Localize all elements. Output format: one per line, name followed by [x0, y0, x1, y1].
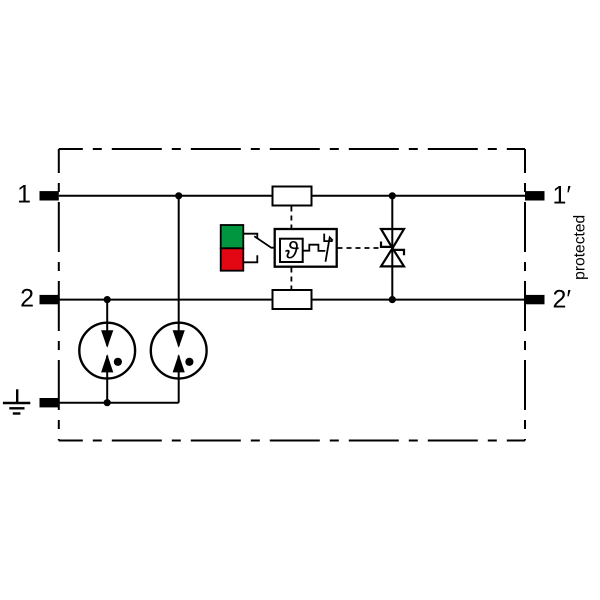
label theta (temperature symbol) [285, 238, 299, 265]
terminal 2' (right, black clamp) [525, 295, 545, 304]
label 1' [553, 182, 572, 210]
terminal 1 (left, black clamp) [40, 191, 59, 200]
wire line 2 (terminal 2 to terminal 2') [59, 299, 525, 301]
label 2' [553, 285, 572, 313]
changeover contact of status indicator [243, 234, 274, 263]
svg-text:ϑ: ϑ [285, 238, 299, 265]
junction dot line2/F1 [104, 296, 111, 303]
junction dot line2/V1 [389, 296, 396, 303]
gas discharge tube F2 (line 1 to ground) [151, 323, 207, 379]
label 2 [20, 284, 34, 312]
svg-text:2′: 2′ [553, 285, 572, 313]
ground symbol [3, 389, 30, 413]
wire ground line [59, 402, 179, 404]
step signal link inside monitor [303, 245, 326, 251]
svg-text:2: 2 [20, 284, 34, 312]
thermal sensor inner box [280, 239, 303, 262]
resistor R2 (decoupling impedance in line 2) [273, 290, 312, 309]
disconnect switch inside monitor [324, 234, 333, 262]
wire line 1 (terminal 1 to terminal 1') [59, 195, 525, 197]
status indicator red field [221, 248, 244, 270]
svg-text:1′: 1′ [553, 182, 572, 210]
suppressor diode V1 (bidirectional, line1-line2) [381, 229, 404, 266]
label protected (rotated) [572, 215, 589, 280]
dashed link thermal monitor to suppressor diode V1 [338, 247, 381, 249]
svg-text:protected: protected [572, 215, 589, 280]
junction dot line1/F2 [175, 192, 182, 199]
ground terminal (left, black clamp) [40, 398, 59, 407]
junction dot ground/F1 [104, 399, 111, 406]
thermal disconnect monitor U1 outer box [275, 229, 337, 267]
label 1 [17, 181, 31, 209]
terminal 2 (left, black clamp) [40, 295, 59, 304]
gas discharge tube F1 (line 2 to ground) [79, 323, 135, 379]
wire vertical drop of gas discharge tube F1 (line 2 to ground) [106, 300, 108, 403]
dashed link thermal monitor to resistor R2 [290, 268, 292, 291]
wire vertical drop of gas discharge tube F2 (line 1 to ground) [178, 196, 180, 403]
svg-text:1: 1 [17, 181, 31, 209]
dashed link resistor R1 to thermal monitor [290, 207, 292, 230]
enclosure border (dash-dot outline of protection device) [59, 149, 525, 441]
wire vertical branch of suppressor diode V1 (line 1 to line 2) [391, 196, 393, 300]
status indicator green field [221, 225, 244, 248]
terminal 1' (right, black clamp) [525, 191, 545, 200]
junction dot line1/V1 [389, 192, 396, 199]
resistor R1 (decoupling impedance in line 1) [273, 187, 312, 206]
